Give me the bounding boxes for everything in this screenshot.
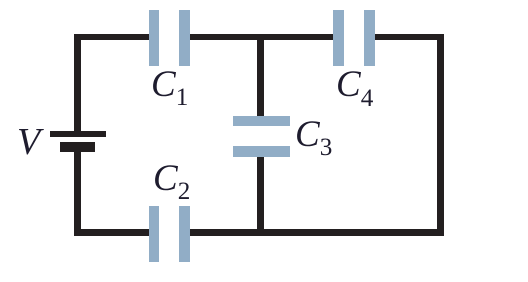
wire top-middle segment (C1 right plate to C4 left plate) <box>190 34 334 41</box>
capacitor C3 top plate <box>233 116 290 126</box>
wire bottom-left segment (left corner to C2 left plate) <box>74 229 150 236</box>
wire left upper segment (top corner to battery plate) <box>74 34 81 132</box>
battery V bottom plate (short thick) <box>60 142 95 152</box>
wire top-right segment (C4 right plate to right corner) <box>375 34 444 41</box>
label C2 <box>153 157 190 200</box>
capacitor C4 right plate <box>364 10 375 66</box>
label V <box>17 120 40 164</box>
capacitor C4 left plate <box>333 10 344 66</box>
wire left lower segment (battery bottom plate to bottom corner) <box>74 152 81 236</box>
capacitor C1 right plate <box>179 10 190 66</box>
capacitor C1 left plate <box>149 10 160 66</box>
wire middle lower segment (C3 bottom plate to bottom wire) <box>257 157 264 236</box>
capacitor C3 bottom plate <box>233 146 290 157</box>
wire bottom-right segment (C2 right plate to right corner) <box>190 229 444 236</box>
capacitor C2 right plate <box>179 206 190 262</box>
label C1 <box>151 63 188 106</box>
wire top-left segment (battery top to C1 left plate) <box>74 34 150 41</box>
wire middle upper segment (top wire to C3 top plate) <box>257 34 264 117</box>
capacitor C2 left plate <box>149 206 159 262</box>
label C3 <box>295 113 332 156</box>
battery V top plate (long) <box>50 131 107 137</box>
label C4 <box>336 63 373 106</box>
wire right segment <box>437 34 444 236</box>
